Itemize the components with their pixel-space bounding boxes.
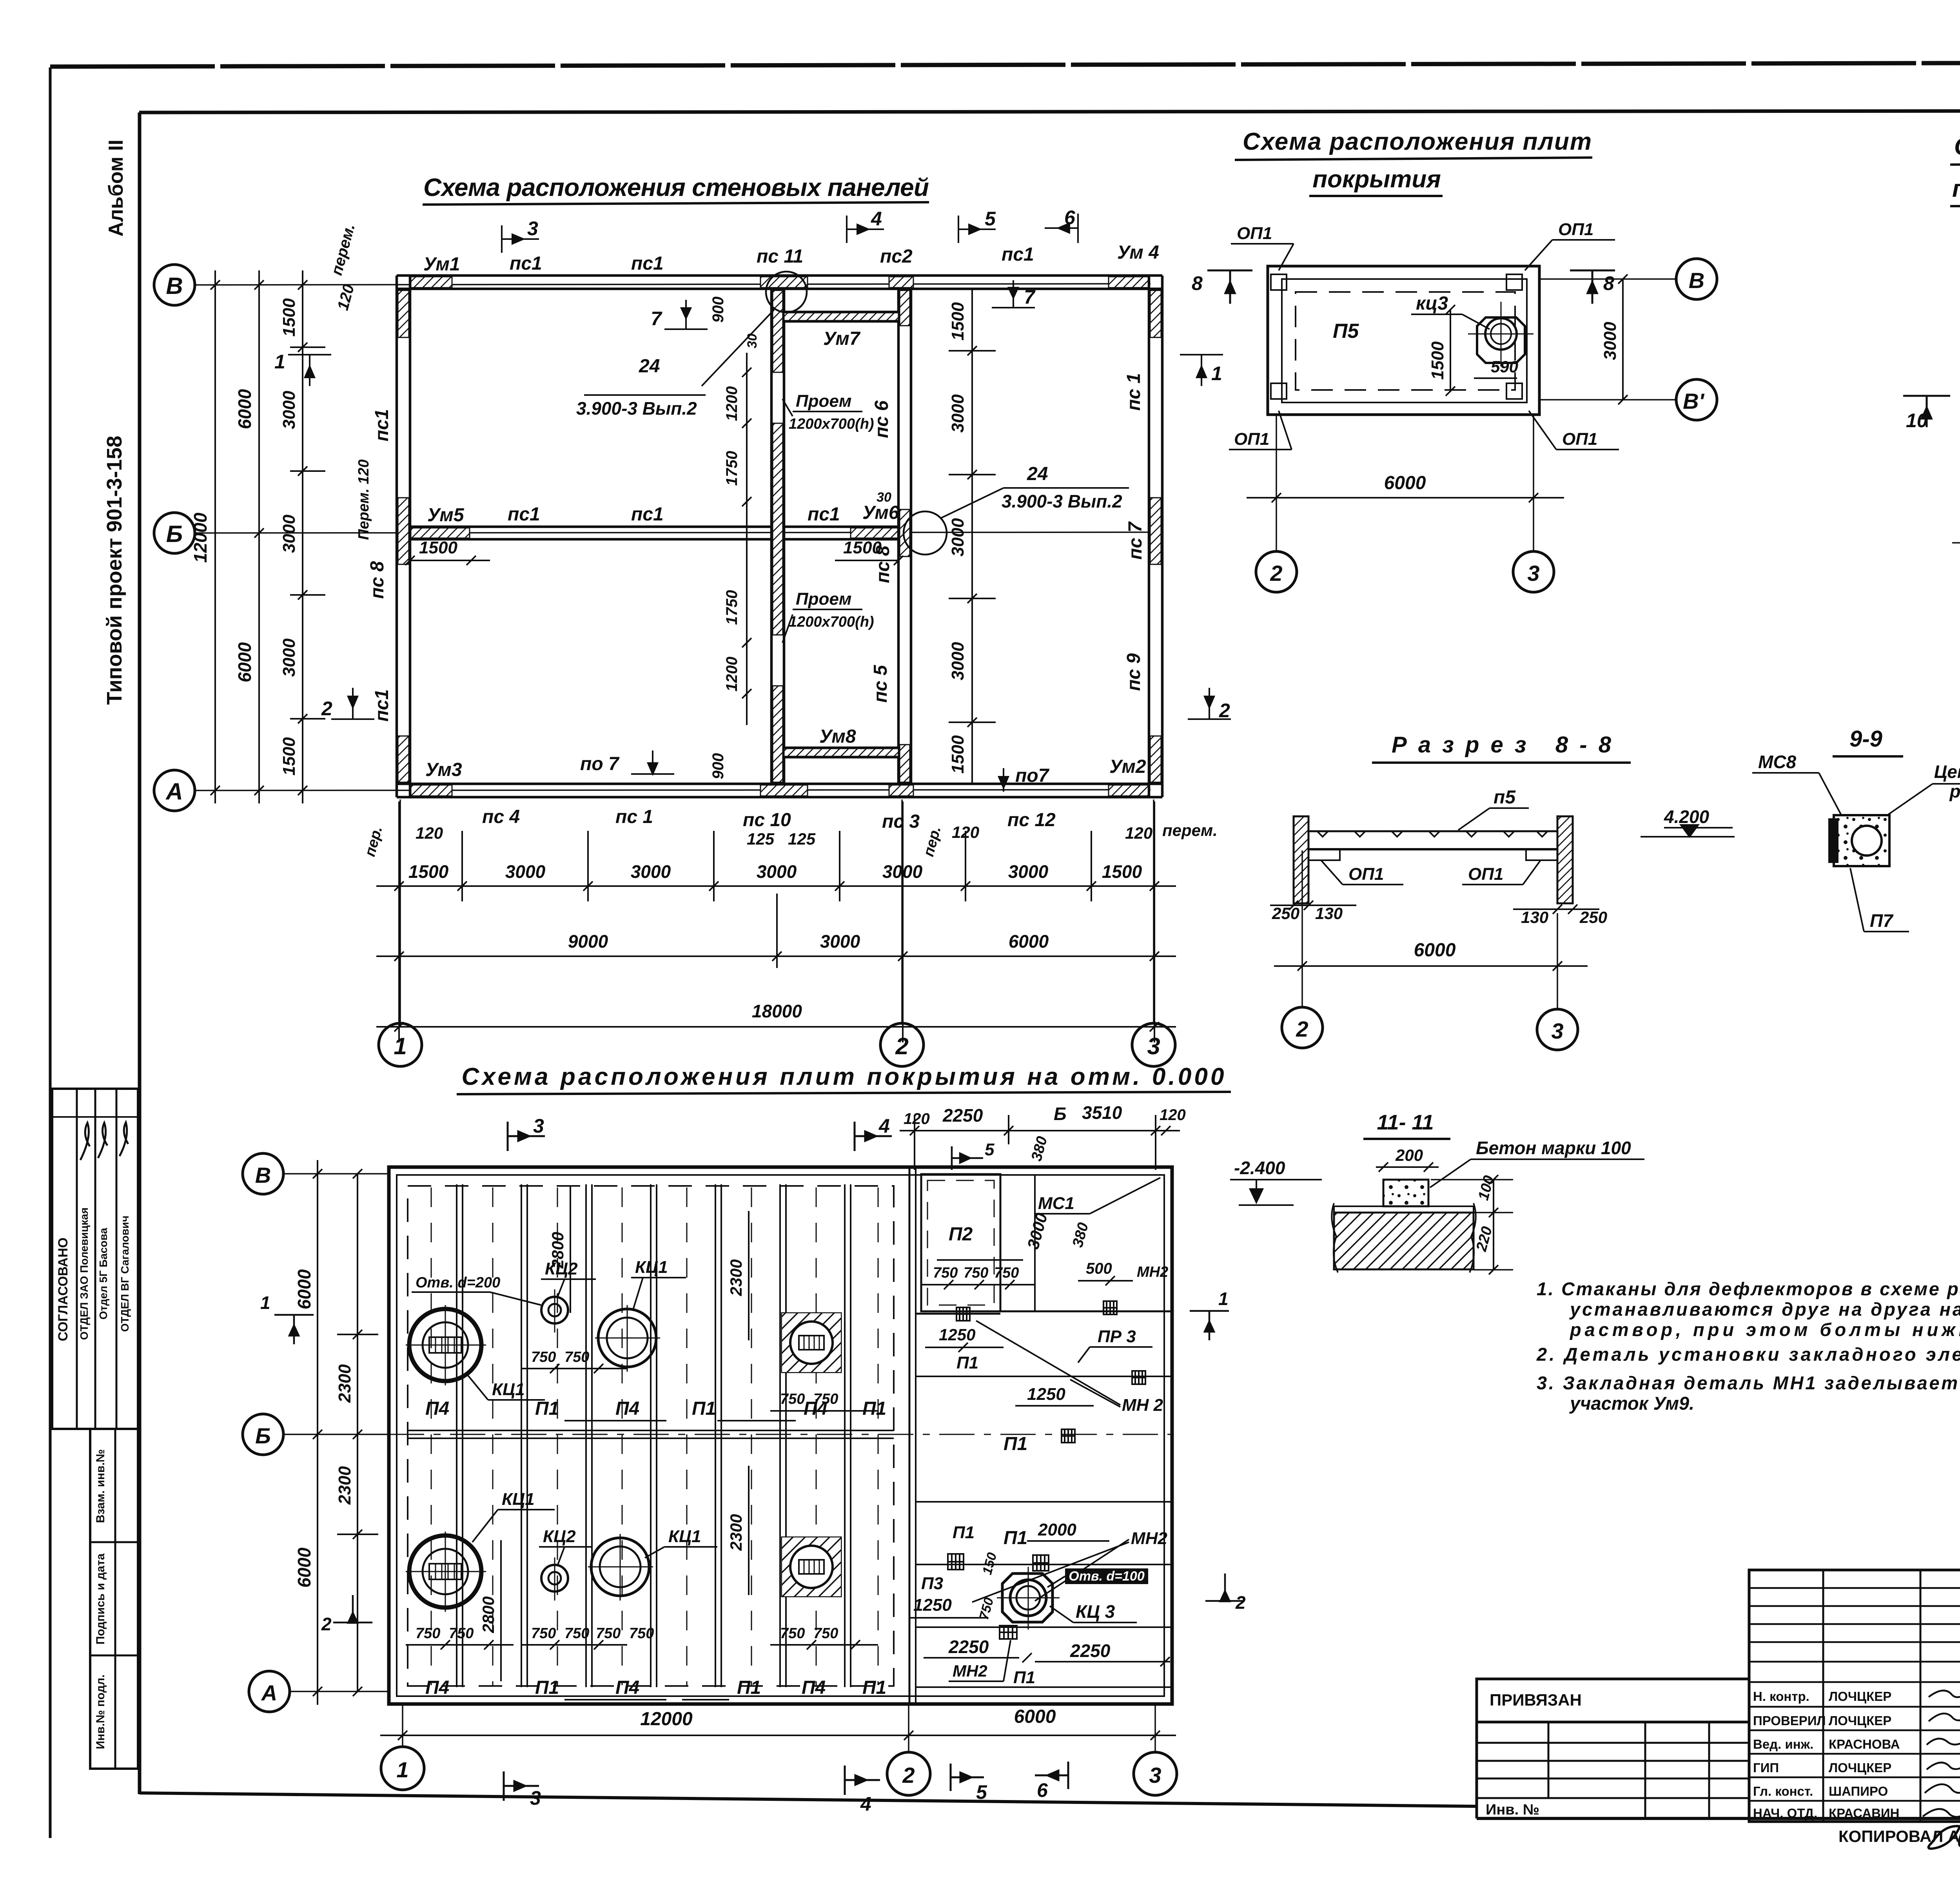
section mark 4 top: [847, 216, 884, 243]
svg-text:1500: 1500: [843, 538, 882, 557]
svg-text:КЦ1: КЦ1: [668, 1527, 701, 1546]
svg-text:П3: П3: [921, 1574, 943, 1593]
svg-text:пс1: пс1: [1002, 244, 1034, 265]
grid circle 2: [1256, 551, 1297, 592]
svg-text:1500: 1500: [948, 735, 967, 774]
svg-text:НАЧ. ОТД.: НАЧ. ОТД.: [1753, 1806, 1817, 1820]
dim line bays: [376, 955, 1176, 957]
grid column line 3: [1153, 799, 1154, 1024]
svg-text:2: 2: [1270, 561, 1282, 586]
svg-text:3000: 3000: [1601, 322, 1620, 360]
svg-text:КЦ1: КЦ1: [635, 1258, 668, 1277]
svg-text:Н. контр.: Н. контр.: [1753, 1689, 1809, 1704]
svg-text:Отв. d=100: Отв. d=100: [1069, 1569, 1145, 1584]
rotated dim 2800 bottom: [500, 1540, 502, 1681]
svg-text:В: В: [166, 273, 183, 299]
svg-text:3000: 3000: [631, 861, 671, 882]
svg-text:МН2: МН2: [1131, 1529, 1167, 1548]
left wall: [396, 276, 398, 797]
detail square 9-9: [1834, 815, 1889, 866]
svg-text:по 7: по 7: [580, 754, 620, 774]
approval signatures: [80, 1122, 128, 1160]
svg-text:Альбом II: Альбом II: [105, 140, 127, 237]
svg-text:ОП1: ОП1: [1237, 224, 1272, 243]
svg-text:750: 750: [531, 1349, 556, 1365]
axis line B: [1539, 278, 1676, 280]
svg-text:П2: П2: [949, 1224, 973, 1245]
svg-text:Б: Б: [255, 1423, 271, 1448]
sheet outer border top: [50, 62, 1960, 67]
svg-text:120: 120: [416, 824, 443, 842]
rotated dim 2800 top: [570, 1186, 571, 1313]
svg-text:3: 3: [527, 218, 538, 239]
slab hatched: [1334, 1213, 1474, 1269]
svg-text:9-9: 9-9: [1849, 726, 1882, 752]
section mark 3 top: [508, 1122, 545, 1151]
mid plate joint row Bb: [408, 1430, 894, 1431]
svg-text:3000: 3000: [279, 638, 299, 677]
svg-text:6000: 6000: [294, 1547, 314, 1588]
section mark 5 top: [958, 216, 996, 243]
grid column line 1: [399, 799, 401, 1024]
svg-text:П4: П4: [425, 1398, 449, 1419]
svg-text:Взам. инв.№: Взам. инв.№: [94, 1449, 107, 1523]
svg-text:ЛОЧЦКЕР: ЛОЧЦКЕР: [1829, 1689, 1891, 1704]
svg-text:ОТДЕЛ ЗАО Полевицкая: ОТДЕЛ ЗАО Полевицкая: [78, 1207, 90, 1340]
svg-text:750: 750: [813, 1625, 838, 1642]
grid circle 2: [880, 1023, 924, 1066]
stamp signatures: [1923, 1691, 1960, 1817]
grid axis Bb: [283, 1434, 389, 1435]
svg-text:5: 5: [985, 1140, 995, 1159]
svg-text:П1: П1: [535, 1677, 559, 1698]
svg-text:Подпись и дата: Подпись и дата: [94, 1553, 107, 1644]
svg-text:пс1: пс1: [808, 504, 840, 525]
svg-text:6: 6: [1064, 207, 1076, 228]
svg-text:Цементный: Цементный: [1934, 761, 1960, 782]
drawing frame top: [139, 111, 1960, 112]
svg-text:3: 3: [1551, 1019, 1563, 1043]
left dim 6000 6000: [317, 1160, 318, 1705]
interior wall ps6-ps8-ps5: [897, 289, 900, 784]
grid column 3: [1154, 1706, 1156, 1752]
svg-text:пс 1: пс 1: [615, 807, 653, 827]
section mark 10 left: [1903, 396, 1950, 427]
svg-text:п5: п5: [1494, 787, 1516, 808]
svg-text:П4: П4: [615, 1398, 639, 1419]
section mark 2 right: [1188, 688, 1231, 719]
grid axis B: [283, 1173, 389, 1175]
KC2 small bottom: [541, 1565, 568, 1592]
dim 1500 inside left: [410, 560, 490, 561]
dim 1500 vertical: [1450, 310, 1451, 392]
svg-text:Инв. №: Инв. №: [1486, 1802, 1539, 1818]
svg-text:1500: 1500: [279, 737, 299, 776]
section mark 2 left: [333, 1595, 372, 1623]
KC2 small top: [541, 1297, 568, 1323]
svg-text:Вед. инж.: Вед. инж.: [1753, 1737, 1813, 1751]
svg-text:2: 2: [895, 1033, 908, 1059]
svg-text:6000: 6000: [294, 1269, 314, 1309]
svg-text:Б: Б: [166, 521, 183, 547]
wall post right 8-8: [1557, 816, 1573, 903]
grid circle 1: [379, 1023, 422, 1066]
svg-text:1500: 1500: [408, 861, 449, 882]
svg-text:КРАСНОВА: КРАСНОВА: [1829, 1737, 1900, 1751]
dim 6000 bottom: [1247, 497, 1564, 499]
svg-text:Отв. d=200: Отв. d=200: [416, 1274, 500, 1291]
section mark 7 right: [992, 280, 1035, 308]
svg-text:КЦ2: КЦ2: [543, 1527, 576, 1546]
svg-text:Перем. 120: Перем. 120: [356, 459, 372, 540]
svg-text:2300: 2300: [335, 1466, 354, 1505]
svg-text:Ум3: Ум3: [425, 760, 462, 780]
svg-text:П1: П1: [737, 1677, 761, 1698]
svg-text:по7: по7: [1015, 765, 1050, 786]
section mark po7 bottom: [631, 750, 674, 774]
svg-text:пс 11: пс 11: [757, 246, 803, 267]
dim 3000 right: [1622, 279, 1624, 400]
svg-text:КОПИРОВАЛ АНТИПОВА: КОПИРОВАЛ АНТИПОВА: [1838, 1827, 1960, 1845]
svg-text:250: 250: [1579, 908, 1607, 926]
svg-text:пс1: пс1: [372, 689, 392, 722]
svg-text:В: В: [1689, 268, 1704, 293]
svg-text:2000: 2000: [1038, 1520, 1076, 1539]
anchor MN2 squares: [948, 1301, 1145, 1639]
svg-text:1200: 1200: [723, 386, 740, 421]
plan outer wall: [389, 1167, 1172, 1704]
svg-text:Инв.№ подл.: Инв.№ подл.: [94, 1675, 107, 1749]
svg-text:Б: Б: [1054, 1104, 1067, 1124]
svg-text:1: 1: [260, 1293, 270, 1313]
svg-text:-2.400: -2.400: [1234, 1158, 1285, 1178]
svg-text:МС1: МС1: [1038, 1194, 1074, 1213]
svg-text:750: 750: [780, 1391, 805, 1407]
grid circle B1: [1676, 379, 1717, 420]
ribbed slab 8-8: [1308, 830, 1557, 832]
svg-text:пс 5: пс 5: [870, 665, 891, 703]
deflector KC3: [1477, 317, 1525, 363]
svg-text:пс 6: пс 6: [871, 401, 892, 438]
svg-text:1500: 1500: [948, 302, 967, 341]
svg-text:12000: 12000: [640, 1709, 693, 1729]
svg-text:750: 750: [564, 1625, 589, 1642]
svg-text:пс 8: пс 8: [367, 561, 388, 599]
svg-text:8: 8: [1603, 272, 1614, 294]
bottom section mark 5: [951, 1764, 984, 1791]
svg-text:9000: 9000: [568, 931, 608, 952]
pad block: [1383, 1180, 1428, 1206]
svg-text:11- 11: 11- 11: [1377, 1111, 1434, 1134]
svg-text:КРАСАВИН: КРАСАВИН: [1829, 1806, 1900, 1820]
svg-text:2: 2: [1219, 700, 1230, 721]
svg-text:ОП1: ОП1: [1562, 430, 1597, 449]
svg-text:18000: 18000: [752, 1001, 802, 1021]
detail callout 24 mid: [941, 488, 1004, 518]
svg-text:Типовой проект 901-3-158: Типовой проект 901-3-158: [103, 436, 126, 705]
svg-text:4.200: 4.200: [1664, 807, 1710, 827]
svg-text:750: 750: [629, 1625, 654, 1642]
svg-text:Проем: Проем: [796, 589, 851, 609]
svg-text:1: 1: [1211, 363, 1222, 384]
svg-text:П1: П1: [1004, 1434, 1027, 1454]
svg-text:П1: П1: [956, 1353, 978, 1372]
joint lines left tank: [456, 1184, 457, 1687]
detail circle ps11: [766, 272, 807, 312]
svg-text:2250: 2250: [942, 1105, 983, 1126]
svg-text:П4: П4: [802, 1677, 826, 1698]
svg-text:1500: 1500: [419, 538, 457, 557]
svg-text:В': В': [1683, 389, 1704, 413]
section mark 3 top: [502, 225, 539, 253]
svg-text:ОП1: ОП1: [1558, 220, 1593, 239]
svg-text:ПРИВЯЗАН: ПРИВЯЗАН: [1490, 1691, 1582, 1709]
svg-text:кц3: кц3: [1416, 293, 1448, 314]
left tank dashed boundary: [408, 1186, 894, 1686]
svg-text:900: 900: [710, 753, 727, 780]
svg-text:2800: 2800: [479, 1596, 497, 1633]
svg-text:П5: П5: [1333, 320, 1359, 343]
svg-text:2300: 2300: [335, 1364, 354, 1403]
svg-text:120: 120: [952, 823, 979, 841]
KC1 medium bottom: [591, 1538, 649, 1596]
svg-text:6000: 6000: [1414, 940, 1456, 961]
svg-text:Бетон марки 100: Бетон марки 100: [1476, 1138, 1631, 1158]
svg-text:Ум8: Ум8: [819, 726, 856, 747]
svg-text:120: 120: [1160, 1106, 1186, 1124]
grid column line 2: [901, 799, 903, 1024]
svg-text:900: 900: [710, 297, 727, 323]
svg-text:3: 3: [1527, 561, 1539, 586]
svg-text:750: 750: [964, 1265, 988, 1281]
dim line panels: [376, 885, 1176, 887]
svg-text:ОТДЕЛ ВГ Сагалович: ОТДЕЛ ВГ Сагалович: [119, 1216, 131, 1332]
svg-text:пс1: пс1: [372, 409, 392, 442]
section mark 6 top: [1045, 214, 1078, 243]
grid axis A: [290, 1691, 389, 1692]
stamp row labels: [1753, 1689, 1900, 1820]
svg-text:Гл. конст.: Гл. конст.: [1753, 1784, 1813, 1798]
detail circle Um6: [904, 511, 947, 555]
section mark 8 right: [1570, 270, 1615, 304]
svg-text:2: 2: [1296, 1017, 1308, 1041]
svg-text:3000: 3000: [757, 861, 797, 882]
right bay plate rows: [916, 1376, 1172, 1377]
svg-text:МН2: МН2: [1137, 1264, 1168, 1280]
section mark 2 right: [1205, 1574, 1245, 1601]
svg-text:МС8: МС8: [1758, 752, 1797, 772]
svg-text:перем.: перем.: [1162, 821, 1218, 839]
svg-text:пс1: пс1: [510, 253, 542, 274]
grid circle B: [154, 265, 195, 305]
svg-text:плит перекрытия на отм.-2.400: плит перекрытия на отм.-2.400: [1952, 175, 1960, 202]
bottom section mark 3: [504, 1771, 539, 1801]
svg-text:125: 125: [747, 830, 775, 848]
svg-text:4: 4: [878, 1115, 890, 1137]
axis Bb dashed across: [389, 1434, 1172, 1435]
svg-text:П1: П1: [953, 1523, 975, 1542]
axis line B1: [1539, 399, 1676, 401]
svg-text:2: 2: [902, 1763, 915, 1787]
section mark 4 top: [855, 1122, 892, 1151]
dim 6000 8-8: [1301, 850, 1303, 1007]
svg-text:3: 3: [533, 1115, 544, 1137]
right wall: [1148, 276, 1151, 797]
svg-text:пс 9: пс 9: [1123, 653, 1144, 691]
svg-text:П1: П1: [692, 1398, 716, 1419]
svg-text:3510: 3510: [1082, 1102, 1122, 1123]
svg-text:7: 7: [651, 308, 662, 330]
interior dim chain: [971, 289, 973, 784]
section mark 7 top: [664, 300, 708, 329]
screed strip: [1334, 1206, 1474, 1213]
svg-text:2250: 2250: [1070, 1641, 1111, 1661]
svg-text:В: В: [255, 1163, 271, 1187]
svg-text:3: 3: [530, 1787, 541, 1809]
svg-text:3. Закладная деталь МН1: 3. Закладная деталь МН1 заделывается анк…: [1537, 1372, 1960, 1393]
svg-text:6000: 6000: [1009, 931, 1049, 952]
interior left dim chain openings: [746, 353, 748, 725]
drawing frame bottom: [140, 1793, 1478, 1806]
sheet outer border left: [49, 67, 52, 1838]
svg-text:5: 5: [976, 1781, 987, 1803]
svg-text:ОП1: ОП1: [1468, 865, 1503, 884]
svg-text:750: 750: [780, 1625, 805, 1642]
svg-text:1: 1: [394, 1033, 407, 1059]
svg-text:участок Ум9.: участок Ум9.: [1569, 1393, 1694, 1414]
svg-text:3.900-3 Вып.2: 3.900-3 Вып.2: [1002, 491, 1122, 511]
svg-text:750: 750: [994, 1265, 1019, 1281]
svg-text:3: 3: [1149, 1763, 1161, 1787]
bottom section mark 6: [1035, 1762, 1068, 1789]
grid column 1: [402, 1706, 403, 1747]
axis Bb line: [1952, 542, 1960, 544]
grid circle Bb: [154, 513, 195, 553]
svg-text:6000: 6000: [234, 642, 255, 682]
grid axis line A: [195, 790, 1151, 790]
svg-text:2250: 2250: [948, 1637, 989, 1657]
svg-text:130: 130: [1315, 904, 1343, 923]
svg-text:3000: 3000: [948, 518, 967, 557]
svg-text:750: 750: [416, 1625, 440, 1642]
svg-text:Ум5: Ум5: [427, 505, 465, 526]
svg-text:П1: П1: [535, 1398, 559, 1419]
bottom section mark 4: [845, 1766, 880, 1795]
rotated dim 2300 mid bottom: [748, 1466, 750, 1595]
plate P2: [921, 1174, 1000, 1311]
svg-text:ЛОЧЦКЕР: ЛОЧЦКЕР: [1829, 1760, 1891, 1775]
svg-text:СОГЛАСОВАНО: СОГЛАСОВАНО: [56, 1238, 71, 1341]
KC3 octagon bottom right: [1002, 1574, 1053, 1622]
svg-text:1750: 1750: [723, 451, 740, 486]
svg-text:1: 1: [1218, 1289, 1229, 1309]
plan slab dashed: [1296, 292, 1515, 390]
svg-text:1500: 1500: [1102, 861, 1142, 882]
grid circle 3: [1513, 551, 1554, 592]
title block bottom edge: [1477, 1817, 1960, 1820]
svg-text:3000: 3000: [505, 861, 546, 882]
svg-text:2: 2: [321, 698, 332, 720]
svg-text:Схема расположения стеновых па: Схема расположения стеновых панелей: [423, 173, 929, 201]
svg-text:пс1: пс1: [508, 504, 540, 525]
top wall: [397, 274, 1162, 277]
section mark 1 left: [274, 1315, 314, 1344]
bearing pads corners: [1271, 274, 1287, 290]
dim line total: [376, 1026, 1176, 1028]
label Otv d100: [1065, 1568, 1148, 1584]
svg-text:6: 6: [1037, 1779, 1048, 1801]
svg-text:Ум7: Ум7: [823, 328, 861, 349]
svg-text:3000: 3000: [948, 642, 967, 680]
dim 1500 inside right: [835, 560, 898, 561]
svg-text:пс 1: пс 1: [1123, 373, 1144, 411]
svg-text:3000: 3000: [820, 931, 860, 952]
svg-text:П4: П4: [804, 1398, 828, 1419]
section mark po7 right: [999, 768, 1008, 792]
svg-text:пс 3: пс 3: [882, 811, 920, 832]
bottom extension lines: [398, 801, 400, 1042]
svg-text:1250: 1250: [939, 1325, 975, 1344]
big deflector KC1 top: [409, 1309, 481, 1381]
MS1 strip right of P2: [1034, 1174, 1036, 1311]
hatched box top: [782, 1313, 841, 1372]
svg-text:12000: 12000: [190, 513, 211, 563]
bearing corbels 8-8: [1308, 849, 1340, 860]
svg-text:Проем: Проем: [796, 392, 851, 411]
detail callout 24 top: [702, 310, 774, 386]
left small table: [1475, 1722, 1478, 1818]
svg-text:250: 250: [1272, 904, 1299, 923]
svg-text:КЦ 3: КЦ 3: [1076, 1601, 1115, 1622]
svg-text:3.900-3 Вып.2: 3.900-3 Вып.2: [576, 398, 697, 419]
bottom wall: [397, 783, 1162, 785]
svg-text:Ум6: Ум6: [862, 502, 899, 523]
svg-text:Ум 4: Ум 4: [1117, 242, 1159, 263]
svg-text:ШАПИРО: ШАПИРО: [1829, 1784, 1888, 1798]
svg-text:24: 24: [639, 356, 660, 377]
section mark 2 left: [331, 688, 374, 719]
svg-text:2300: 2300: [727, 1514, 745, 1551]
svg-text:Ум1: Ум1: [423, 254, 460, 275]
svg-text:пс2: пс2: [880, 246, 913, 267]
top dim row right bay: [900, 1130, 1180, 1131]
svg-text:3000: 3000: [1008, 861, 1049, 882]
KC1 medium top: [598, 1309, 656, 1367]
section mark 1 left: [288, 355, 331, 386]
svg-text:1. Стаканы для дефлекторов: 1. Стаканы для дефлекторов в схеме распо…: [1537, 1278, 1960, 1299]
svg-text:1: 1: [274, 351, 285, 373]
wall post left 8-8: [1294, 816, 1308, 903]
big signature scrawl: [1959, 1746, 1960, 1846]
svg-text:6000: 6000: [234, 389, 255, 429]
svg-text:П1: П1: [1004, 1528, 1027, 1548]
svg-text:3000: 3000: [948, 394, 967, 433]
grid circle B: [1676, 259, 1717, 299]
svg-text:4: 4: [860, 1793, 871, 1815]
svg-text:ПР 3: ПР 3: [1098, 1327, 1136, 1346]
svg-text:3000: 3000: [279, 391, 299, 429]
svg-text:устанавливаются друг на др: устанавливаются друг на друга на свежеул…: [1569, 1299, 1960, 1320]
svg-text:А: А: [165, 778, 183, 805]
svg-text:1200: 1200: [723, 657, 740, 692]
svg-text:Ум2: Ум2: [1109, 756, 1146, 777]
svg-text:10: 10: [1906, 410, 1928, 431]
svg-text:120: 120: [904, 1110, 930, 1128]
column2 joint: [909, 1167, 911, 1704]
svg-text:А: А: [261, 1680, 277, 1705]
big deflector KC1 bottom: [409, 1535, 481, 1608]
svg-text:750: 750: [531, 1625, 556, 1642]
